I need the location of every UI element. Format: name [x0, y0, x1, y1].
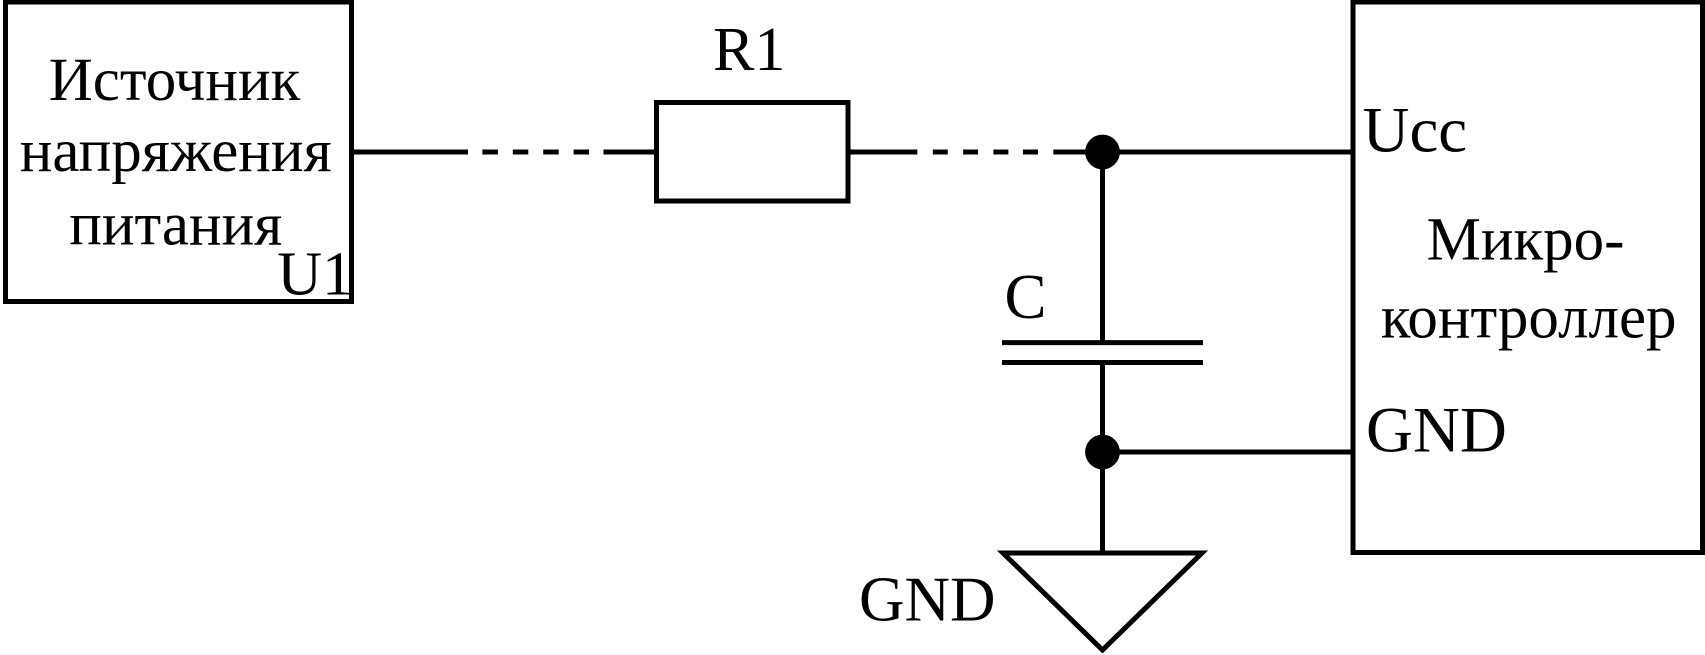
wire capacitor to node B: [1100, 363, 1105, 453]
wire W1 solid segment (source to dashed): [354, 150, 468, 155]
wire node B to GND pin: [1103, 450, 1354, 455]
node A junction dot: [1085, 135, 1120, 170]
svg-text:Ucc: Ucc: [1363, 94, 1468, 166]
wire node A down to capacitor: [1100, 152, 1105, 343]
wire W1 dashed segment: [482, 150, 589, 155]
capacitor C top plate: [1002, 340, 1203, 345]
wire node B down to ground: [1100, 452, 1105, 553]
resistor R1 body: [657, 103, 849, 202]
svg-text:GND: GND: [1366, 395, 1507, 467]
svg-text:Источник: Источник: [49, 47, 301, 114]
wire W1 solid segment (dashed to resistor): [604, 150, 657, 155]
wire W2 dashed segment: [933, 150, 1038, 155]
node B junction dot: [1085, 435, 1120, 470]
svg-text:Микро-: Микро-: [1427, 206, 1625, 273]
svg-text:контроллер: контроллер: [1381, 285, 1677, 352]
svg-text:C: C: [1005, 262, 1047, 332]
capacitor C bottom plate: [1002, 360, 1203, 365]
svg-text:питания: питания: [69, 192, 282, 259]
svg-text:R1: R1: [713, 16, 785, 84]
svg-text:U1: U1: [277, 241, 353, 309]
svg-text:напряжения: напряжения: [20, 118, 332, 185]
ground symbol (triangle): [1003, 553, 1202, 650]
wire node A to Ucc pin: [1103, 150, 1354, 155]
power source box U1: [6, 2, 352, 302]
wire W2 solid segment (dashed to node A): [1053, 150, 1102, 155]
wire W2 solid segment (resistor to dashed): [851, 150, 918, 155]
svg-text:GND: GND: [859, 565, 996, 635]
microcontroller box: [1353, 2, 1703, 553]
